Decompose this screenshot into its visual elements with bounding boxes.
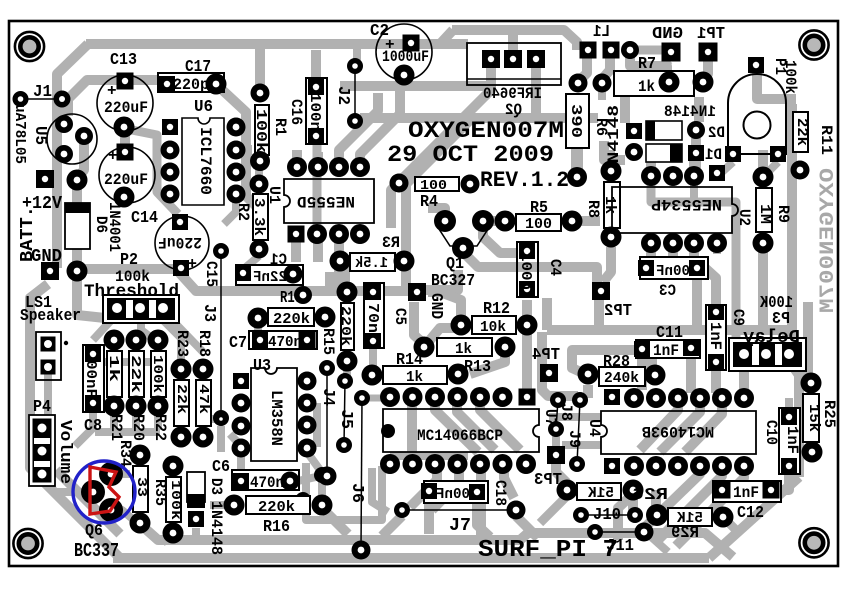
svg-text:R5: R5: [530, 199, 548, 218]
wire MC14066 inner c: [480, 400, 520, 450]
pad R3-1: [330, 251, 351, 272]
svg-text:R14: R14: [396, 351, 423, 370]
wire GND horizontal: [83, 264, 174, 274]
svg-text:100K: 100K: [759, 294, 793, 313]
pad C3-2: [689, 260, 705, 276]
svg-text:51K: 51K: [588, 485, 614, 502]
diode D6 body: [65, 203, 90, 249]
pad C15+: [173, 260, 189, 276]
svg-text:29 OCT 2009: 29 OCT 2009: [387, 142, 554, 168]
wire TP3 to J8: [552, 434, 560, 446]
pad U4-bot0: [604, 458, 620, 474]
capacitor C17 outline: [158, 73, 224, 92]
pad J11-1: [587, 524, 603, 540]
pad U7-14: [519, 389, 536, 406]
wire C3 to delay bus: [692, 278, 702, 330]
resistor R1 outline: [255, 105, 269, 155]
pad C18-2: [469, 484, 485, 500]
pad U4-top2: [646, 388, 666, 408]
svg-text:00nF: 00nF: [656, 263, 690, 280]
pad C5-1: [365, 284, 381, 300]
capacitor C10 outline: [779, 408, 800, 474]
wire U2 pin5 stub: [713, 247, 721, 254]
pad L1-2: [603, 42, 620, 59]
wire J7 left down: [382, 516, 402, 536]
pad U7-bot0: [380, 454, 400, 474]
pad Q6-3: [99, 498, 123, 522]
pad C3-1: [638, 260, 654, 276]
mounting hole top-right: [799, 30, 828, 59]
wire U4 pin diag c: [640, 470, 700, 532]
svg-text:C11: C11: [656, 324, 683, 343]
pad P1-a: [725, 146, 741, 162]
pad R18-1: [193, 359, 214, 380]
pad TP3: [547, 446, 565, 464]
pad U5-2: [75, 127, 93, 145]
wire P1 pad a down: [722, 162, 733, 172]
pad D3-1: [188, 511, 204, 527]
timer U1 outline: [284, 179, 374, 223]
pad R13-1: [414, 337, 435, 358]
wire MC14066 down c: [476, 466, 486, 537]
svg-text:220uF: 220uF: [158, 233, 202, 251]
wire U1 pin up b: [313, 152, 323, 166]
svg-text:L1: L1: [593, 23, 610, 42]
connector LS1 outline: [36, 332, 61, 380]
pad J1-1: [13, 91, 29, 107]
wire J6 top link: [362, 395, 388, 402]
pad R28-2: [645, 365, 666, 386]
wire divider bottom row: [95, 428, 160, 436]
wire R9 down: [758, 247, 768, 326]
pad TP2: [592, 282, 610, 300]
svg-text:R20: R20: [129, 414, 147, 441]
resistor R13 outline: [437, 338, 492, 356]
pad J1-2: [54, 91, 71, 108]
wire C10 up: [785, 398, 793, 412]
wire C16 down: [313, 144, 322, 232]
svg-text:BC337: BC337: [74, 540, 119, 562]
potentiometer P2 outline: [103, 295, 179, 323]
pad R12-1: [451, 315, 472, 336]
svg-text:MC14093B: MC14093B: [642, 422, 714, 440]
pad D1-1: [625, 143, 643, 161]
wire R13 to R14: [470, 350, 505, 374]
svg-text:220k: 220k: [258, 499, 295, 516]
pad P3-3: [784, 349, 794, 359]
wire R20 top stub: [132, 344, 140, 360]
svg-text:J3: J3: [199, 304, 218, 322]
svg-text:NE555D: NE555D: [297, 192, 355, 210]
potentiometer P1 knob: [744, 112, 771, 139]
pad U4-bot3: [668, 456, 688, 476]
pad P2-1: [112, 303, 122, 313]
svg-text:J9: J9: [565, 430, 583, 448]
wire right ring diagonal: [709, 477, 799, 558]
wire C12 to C10: [772, 470, 789, 490]
pad U3-l2: [232, 439, 251, 458]
jumper J9 wire: [577, 400, 580, 464]
svg-text:100k: 100k: [252, 109, 269, 153]
pad R18-2: [193, 427, 214, 448]
capacitor C8 outline: [83, 345, 104, 412]
resistor R4 outline: [415, 177, 459, 191]
wire U2 pin up a: [646, 158, 656, 172]
wire U2 pin up b: [689, 160, 699, 172]
pad J4-2: [318, 467, 337, 486]
pad Q2-3: [527, 50, 545, 68]
pad R25-1: [801, 373, 822, 394]
pad R35-2: [130, 513, 151, 534]
pad LS1-1: [41, 337, 56, 352]
pad U4-bot2: [646, 456, 666, 476]
wire via to R18: [201, 419, 221, 428]
pad J10-2: [627, 507, 643, 523]
diode D2 body: [646, 121, 682, 140]
wire LS1 down: [44, 372, 52, 428]
capacitor C7 outline: [249, 331, 317, 349]
wire MC14066 pin2 vertical: [407, 400, 417, 460]
wire R3 vertical a: [340, 255, 350, 288]
pad batt b: [67, 261, 88, 282]
svg-text:100: 100: [525, 216, 552, 233]
pad U3-r1: [298, 394, 317, 413]
diode D1 body: [646, 144, 682, 162]
wire MC14066 inner a: [435, 400, 478, 452]
pad R4-2: [461, 175, 480, 194]
pad R21-1: [104, 330, 125, 351]
svg-text:TP1: TP1: [697, 25, 725, 44]
wire top supply bus: [86, 39, 468, 49]
pad C15 top: [172, 214, 188, 230]
wire R20 bot stub: [132, 410, 140, 430]
highlight circle: [73, 461, 135, 523]
pad U2-8: [709, 165, 725, 181]
svg-text:U4: U4: [585, 419, 603, 437]
pad J10-1: [573, 507, 589, 523]
svg-text:C5: C5: [391, 308, 409, 325]
pad U3-r3: [298, 439, 317, 458]
potentiometer P1 outline: [728, 74, 786, 154]
pad J8-2: [548, 421, 564, 437]
svg-text:1nF: 1nF: [706, 322, 724, 350]
svg-text:1000uF: 1000uF: [382, 48, 429, 66]
wire U1 pin down: [313, 236, 323, 262]
pad Q2-2: [504, 50, 522, 68]
svg-text:47k: 47k: [195, 384, 211, 414]
wire U2 pin down c: [694, 247, 716, 312]
resistor R29 outline: [668, 508, 712, 526]
svg-text:J2: J2: [333, 86, 352, 105]
wire MC14066 down a: [410, 468, 437, 507]
pad R29-1: [646, 504, 668, 526]
svg-text:1k: 1k: [638, 78, 655, 96]
pad R5-1: [495, 211, 516, 232]
wire C11 left down: [637, 358, 647, 390]
wire left third vertical: [79, 140, 84, 176]
wire C13 to C14: [120, 130, 130, 150]
pad U6-4: [161, 185, 180, 204]
pad LS1-2: [41, 360, 56, 375]
pad R9-2: [753, 233, 774, 254]
wire R36 to bus: [162, 532, 173, 543]
wire U3 right vertical: [313, 403, 321, 447]
pad R25-2: [802, 442, 823, 463]
pad R13-2: [495, 337, 516, 358]
pad R20-1: [126, 330, 147, 351]
pad R15-2: [337, 351, 358, 372]
svg-text:C6: C6: [212, 458, 230, 477]
wire GND2 right: [426, 270, 458, 290]
resistor R25 outline: [803, 394, 819, 442]
transistor Q2 tab line: [467, 78, 561, 80]
wire Q2 drain down: [531, 62, 541, 118]
svg-text:00nF: 00nF: [82, 360, 99, 398]
pad BATT-: [41, 262, 59, 280]
wire pot to R22: [141, 321, 157, 342]
capacitor C3 outline: [640, 257, 708, 279]
pad U4-top1: [624, 388, 644, 408]
pad U6-7: [227, 141, 246, 160]
svg-text:OXYGEN007M: OXYGEN007M: [817, 168, 840, 313]
capacitor C14 outline: [99, 147, 155, 203]
svg-text:+: +: [187, 253, 197, 271]
wire top bus branch diagonal: [440, 30, 453, 44]
resistor R26 outline: [577, 483, 621, 500]
pad U6-6: [227, 163, 246, 182]
pad U7-bot3: [448, 454, 468, 474]
pad J7-1: [394, 502, 410, 518]
pad Q6-1: [99, 462, 123, 486]
wire GND pad diag: [652, 60, 669, 77]
svg-text:U3: U3: [253, 357, 271, 376]
svg-text:U1: U1: [265, 186, 283, 204]
resistor R18 outline: [196, 380, 211, 426]
wire R16 right diag: [322, 508, 348, 534]
pad C10-1: [781, 409, 797, 425]
notch pad: [381, 424, 395, 438]
pad R36-2: [163, 523, 184, 544]
wire R26 to bus: [540, 496, 567, 523]
wire U3 pin down: [237, 452, 245, 472]
pad L1-3: [621, 41, 639, 59]
pad GND: [662, 43, 681, 62]
svg-text:C12: C12: [737, 504, 764, 523]
resistor R14 outline: [383, 366, 447, 384]
pad U3-l1: [232, 417, 251, 436]
pad U1-1: [288, 226, 305, 243]
mounting hole top-left: [15, 32, 44, 61]
wire TP4 to J8: [542, 332, 578, 396]
diode D3 body: [187, 472, 205, 502]
pad U6-5: [227, 185, 246, 204]
svg-text:U5: U5: [30, 126, 49, 145]
pad J2-2: [347, 113, 363, 129]
svg-text:1N4148: 1N4148: [207, 501, 225, 555]
svg-text:OXYGEN007M: OXYGEN007M: [408, 118, 564, 144]
jumper J6 wire: [361, 398, 362, 550]
capacitor C4 outline: [517, 242, 538, 297]
connector J1 outline: [21, 98, 62, 100]
pad GND2: [408, 283, 426, 301]
pad Q1-2: [472, 210, 494, 232]
svg-text:J8: J8: [557, 403, 575, 421]
svg-text:C3: C3: [659, 282, 676, 300]
svg-text:D2: D2: [708, 124, 725, 142]
wire D1 right down: [691, 138, 701, 168]
wire bottom-left ground: [30, 284, 119, 557]
pad C14-: [114, 187, 135, 208]
svg-text:220p: 220p: [173, 76, 209, 94]
transistor Q2 outline: [467, 43, 561, 85]
pad R7-1: [659, 72, 680, 93]
wire R5 to R8: [572, 216, 600, 226]
pad J8-1: [550, 392, 566, 408]
pad R9-1: [753, 167, 774, 188]
pad U4-bot4: [690, 456, 710, 476]
wire bus to R1: [255, 45, 265, 93]
resistor R11 outline: [793, 112, 808, 152]
connector P4 outline: [29, 415, 55, 486]
resistor R22 outline: [151, 351, 166, 397]
wire D3 down: [192, 528, 200, 540]
wire Q2 gate stub: [508, 28, 518, 55]
svg-text:J7: J7: [449, 516, 471, 536]
resistor R15 outline: [341, 303, 354, 350]
svg-text:Q6: Q6: [85, 522, 103, 541]
pad C7-1: [252, 332, 268, 348]
resistor R2 outline: [253, 194, 268, 240]
capacitor C18 outline: [424, 481, 488, 503]
svg-text:1.5k: 1.5k: [355, 255, 388, 272]
wire MC14066 inner b: [457, 400, 495, 450]
pad P2-2: [135, 303, 145, 313]
svg-text:Threshold: Threshold: [84, 282, 179, 302]
svg-text:390: 390: [567, 104, 584, 138]
svg-text:R35: R35: [151, 479, 169, 506]
jumper J2 wire: [354, 66, 356, 121]
wire U3 pin8 diag: [307, 452, 320, 470]
svg-text:Delay: Delay: [743, 328, 800, 348]
pad C9-2: [708, 354, 724, 370]
svg-text:100k: 100k: [781, 60, 799, 94]
pad U2-top0: [641, 166, 661, 186]
svg-text:J5: J5: [336, 409, 355, 429]
pad R35-1: [130, 445, 151, 466]
svg-text:R21: R21: [107, 414, 125, 441]
pad R2-2: [250, 240, 269, 259]
svg-text:R18: R18: [195, 330, 213, 357]
pad U7-bot4: [470, 454, 490, 474]
wire R12 to R13: [430, 328, 461, 340]
pad C16-2: [308, 128, 324, 144]
svg-text:NE5534P: NE5534P: [651, 195, 722, 213]
wire Q1 up: [428, 208, 445, 220]
pad R26-1: [557, 480, 578, 501]
resistor R23 outline: [174, 380, 189, 426]
pad J9-2: [569, 456, 585, 472]
wire Q1 emitter bus: [463, 252, 597, 285]
resistor R8 outline: [604, 182, 620, 228]
svg-text:C7: C7: [229, 334, 247, 353]
pad J11-2: [635, 523, 654, 542]
pad U6-1: [162, 119, 178, 135]
pad P3-1: [739, 349, 749, 359]
pad C12-2: [763, 482, 780, 499]
svg-text:1N4001: 1N4001: [105, 202, 123, 252]
ic U4 MC14093B outline: [601, 411, 756, 454]
pad U1-top3: [350, 157, 370, 177]
pad R15-1: [337, 282, 358, 303]
capacitor C2 outline: [376, 24, 432, 80]
wire U2 pin down a: [646, 247, 656, 258]
svg-text:C4: C4: [546, 259, 564, 276]
svg-text:22k: 22k: [127, 355, 143, 393]
svg-text:SURF_PI 7: SURF_PI 7: [478, 537, 618, 564]
resistor R20 outline: [129, 351, 144, 397]
wire J1 to U5: [60, 104, 68, 118]
svg-text:470n: 470n: [268, 334, 302, 351]
pad U7-bot1: [403, 454, 423, 474]
wire C8 to P4: [75, 410, 93, 446]
pad U7-top3: [448, 387, 468, 407]
wire pot to R18: [174, 322, 203, 352]
wire P1 pad b down: [766, 162, 778, 174]
pad U2-top2: [684, 166, 704, 186]
pad U7-top0: [380, 387, 400, 407]
svg-text:R8: R8: [584, 200, 602, 218]
wire R8 to TP2: [603, 247, 611, 282]
svg-text:1M: 1M: [756, 204, 773, 224]
pad J3-2: [213, 410, 229, 426]
capacitor C5 outline: [364, 283, 384, 348]
highlight transistor outline: [90, 467, 119, 514]
pad U5-3: [55, 145, 73, 163]
pad U1-top0: [287, 157, 307, 177]
svg-text:1nF: 1nF: [653, 342, 679, 360]
wire R6 bottom: [571, 148, 583, 176]
pad R22-2: [148, 396, 169, 417]
wire U4 inner c: [640, 402, 678, 450]
wire R21 bot stub: [110, 410, 118, 430]
wire R28 down: [583, 385, 593, 398]
pad J4-1: [319, 360, 335, 376]
pad C16-1: [308, 79, 324, 95]
svg-text:C17: C17: [185, 58, 211, 77]
wire R21 top stub: [110, 344, 118, 360]
wire U4 pin diag b: [656, 470, 722, 542]
wire R29 pad up: [651, 490, 661, 512]
pad C2-: [394, 65, 415, 86]
pad C6-1: [233, 473, 249, 489]
pad U6-8: [227, 118, 246, 137]
wire divider top row: [95, 358, 160, 366]
pad C13+: [117, 73, 134, 90]
svg-text:1nF: 1nF: [733, 484, 759, 502]
wire J3 to C6: [217, 426, 225, 452]
svg-text:100n: 100n: [517, 252, 534, 290]
svg-text:R9: R9: [774, 205, 792, 223]
pad R28-1: [578, 364, 599, 385]
svg-text:+: +: [107, 82, 117, 100]
wire C18 down a: [424, 500, 434, 534]
svg-text:470n: 470n: [250, 474, 284, 492]
svg-text:100n: 100n: [306, 93, 323, 131]
svg-text:R28: R28: [603, 353, 630, 372]
pad R11-2: [791, 161, 810, 180]
pad U1-top2: [329, 157, 349, 177]
pad U3-r0: [298, 372, 317, 391]
